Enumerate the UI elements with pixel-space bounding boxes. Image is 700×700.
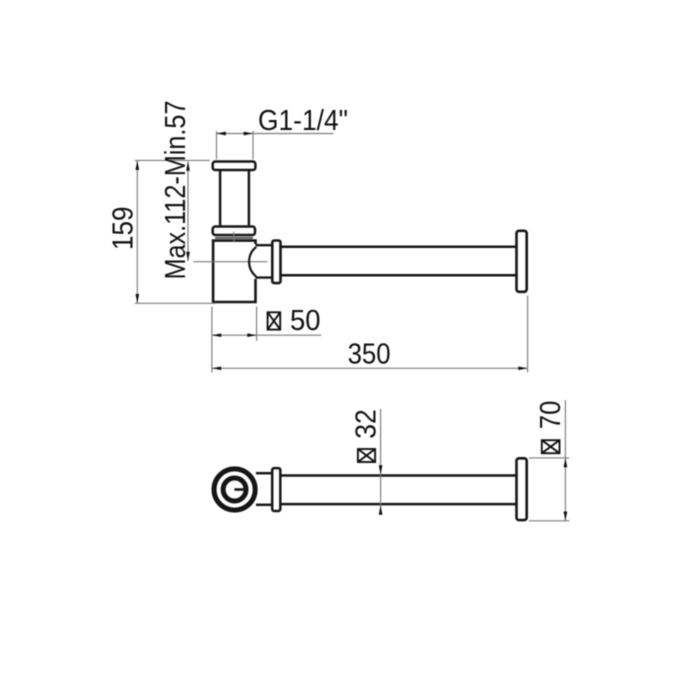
dimension 70 arrow bottom: [564, 512, 568, 521]
dimension 50 arrow left: [212, 333, 221, 337]
svg-text:70: 70: [535, 401, 567, 430]
end view outer ring: [214, 469, 255, 510]
dimension Max line: [187, 162, 189, 262]
dimension G1 line: [217, 133, 334, 135]
dimension 350 arrow left: [212, 366, 221, 370]
outlet nut: [272, 241, 280, 284]
inlet nut: [213, 227, 255, 236]
outlet centerline: [193, 261, 267, 263]
svg-text:350: 350: [348, 339, 391, 371]
diameter 70 symbol box rotated: [542, 440, 560, 453]
bottom pipe stub bottom edge: [256, 504, 272, 507]
flange right extension line: [527, 296, 529, 373]
inlet pipe wall left: [219, 171, 222, 226]
dimension 32 line: [380, 409, 382, 515]
bottom pipe stub top edge: [256, 472, 272, 475]
body center tick: [233, 232, 235, 242]
end view inner ring: [223, 478, 246, 501]
trap body cup: [213, 241, 255, 302]
dimension 50 extension line left: [211, 307, 213, 373]
dimension 50 extension line right: [256, 307, 258, 341]
dimension G1 extension line left: [216, 131, 218, 159]
svg-text:159: 159: [108, 207, 140, 251]
inlet pipe wall right: [248, 171, 251, 226]
svg-text:G1-1/4": G1-1/4": [258, 105, 348, 137]
svg-text:50: 50: [290, 305, 321, 337]
svg-text:32: 32: [351, 409, 383, 439]
dimension 159 line: [136, 161, 138, 304]
dimension 159 arrow bottom: [135, 294, 139, 303]
outlet pipe bottom edge: [281, 274, 516, 277]
inlet flange: [213, 162, 256, 171]
dimension Max arrow top: [186, 162, 190, 171]
dimension G1 arrow right: [244, 132, 253, 136]
dimension G1 arrow left: [217, 132, 226, 136]
bottom pipe top edge: [281, 474, 516, 477]
cup bottom extension line: [135, 302, 216, 304]
outlet stub bottom edge: [256, 276, 273, 278]
dimension 32 arrow down: [379, 465, 383, 474]
end view radius line: [234, 488, 243, 491]
bottom nut: [272, 468, 280, 511]
outlet pipe top edge: [281, 246, 516, 249]
dimension 350 line: [212, 367, 528, 369]
compression ring: [215, 237, 253, 239]
wall flange side view: [517, 231, 527, 292]
dimension 70 extension line top: [529, 457, 569, 459]
flange top extension line: [135, 159, 210, 161]
bottom pipe bottom edge: [281, 503, 516, 506]
bottom wall flange: [517, 458, 527, 520]
outlet stub top edge: [256, 244, 273, 246]
internal tube end arc: [249, 247, 256, 277]
dimension 32 arrow up: [379, 505, 383, 514]
dimension Max arrow bottom: [186, 252, 190, 261]
dimension G1 extension line right: [252, 131, 254, 159]
dimension 350 arrow right: [518, 366, 527, 370]
dimension 70 extension line bottom: [529, 520, 569, 522]
diameter 50 symbol box: [268, 312, 281, 329]
diameter 32 symbol box rotated: [358, 449, 375, 462]
dimension 50 line: [212, 334, 321, 336]
dimension 50 arrow right: [247, 333, 256, 337]
dimension 159 arrow top: [135, 161, 139, 170]
dimension 70 line: [564, 400, 566, 521]
dimension 70 arrow top: [564, 458, 568, 467]
